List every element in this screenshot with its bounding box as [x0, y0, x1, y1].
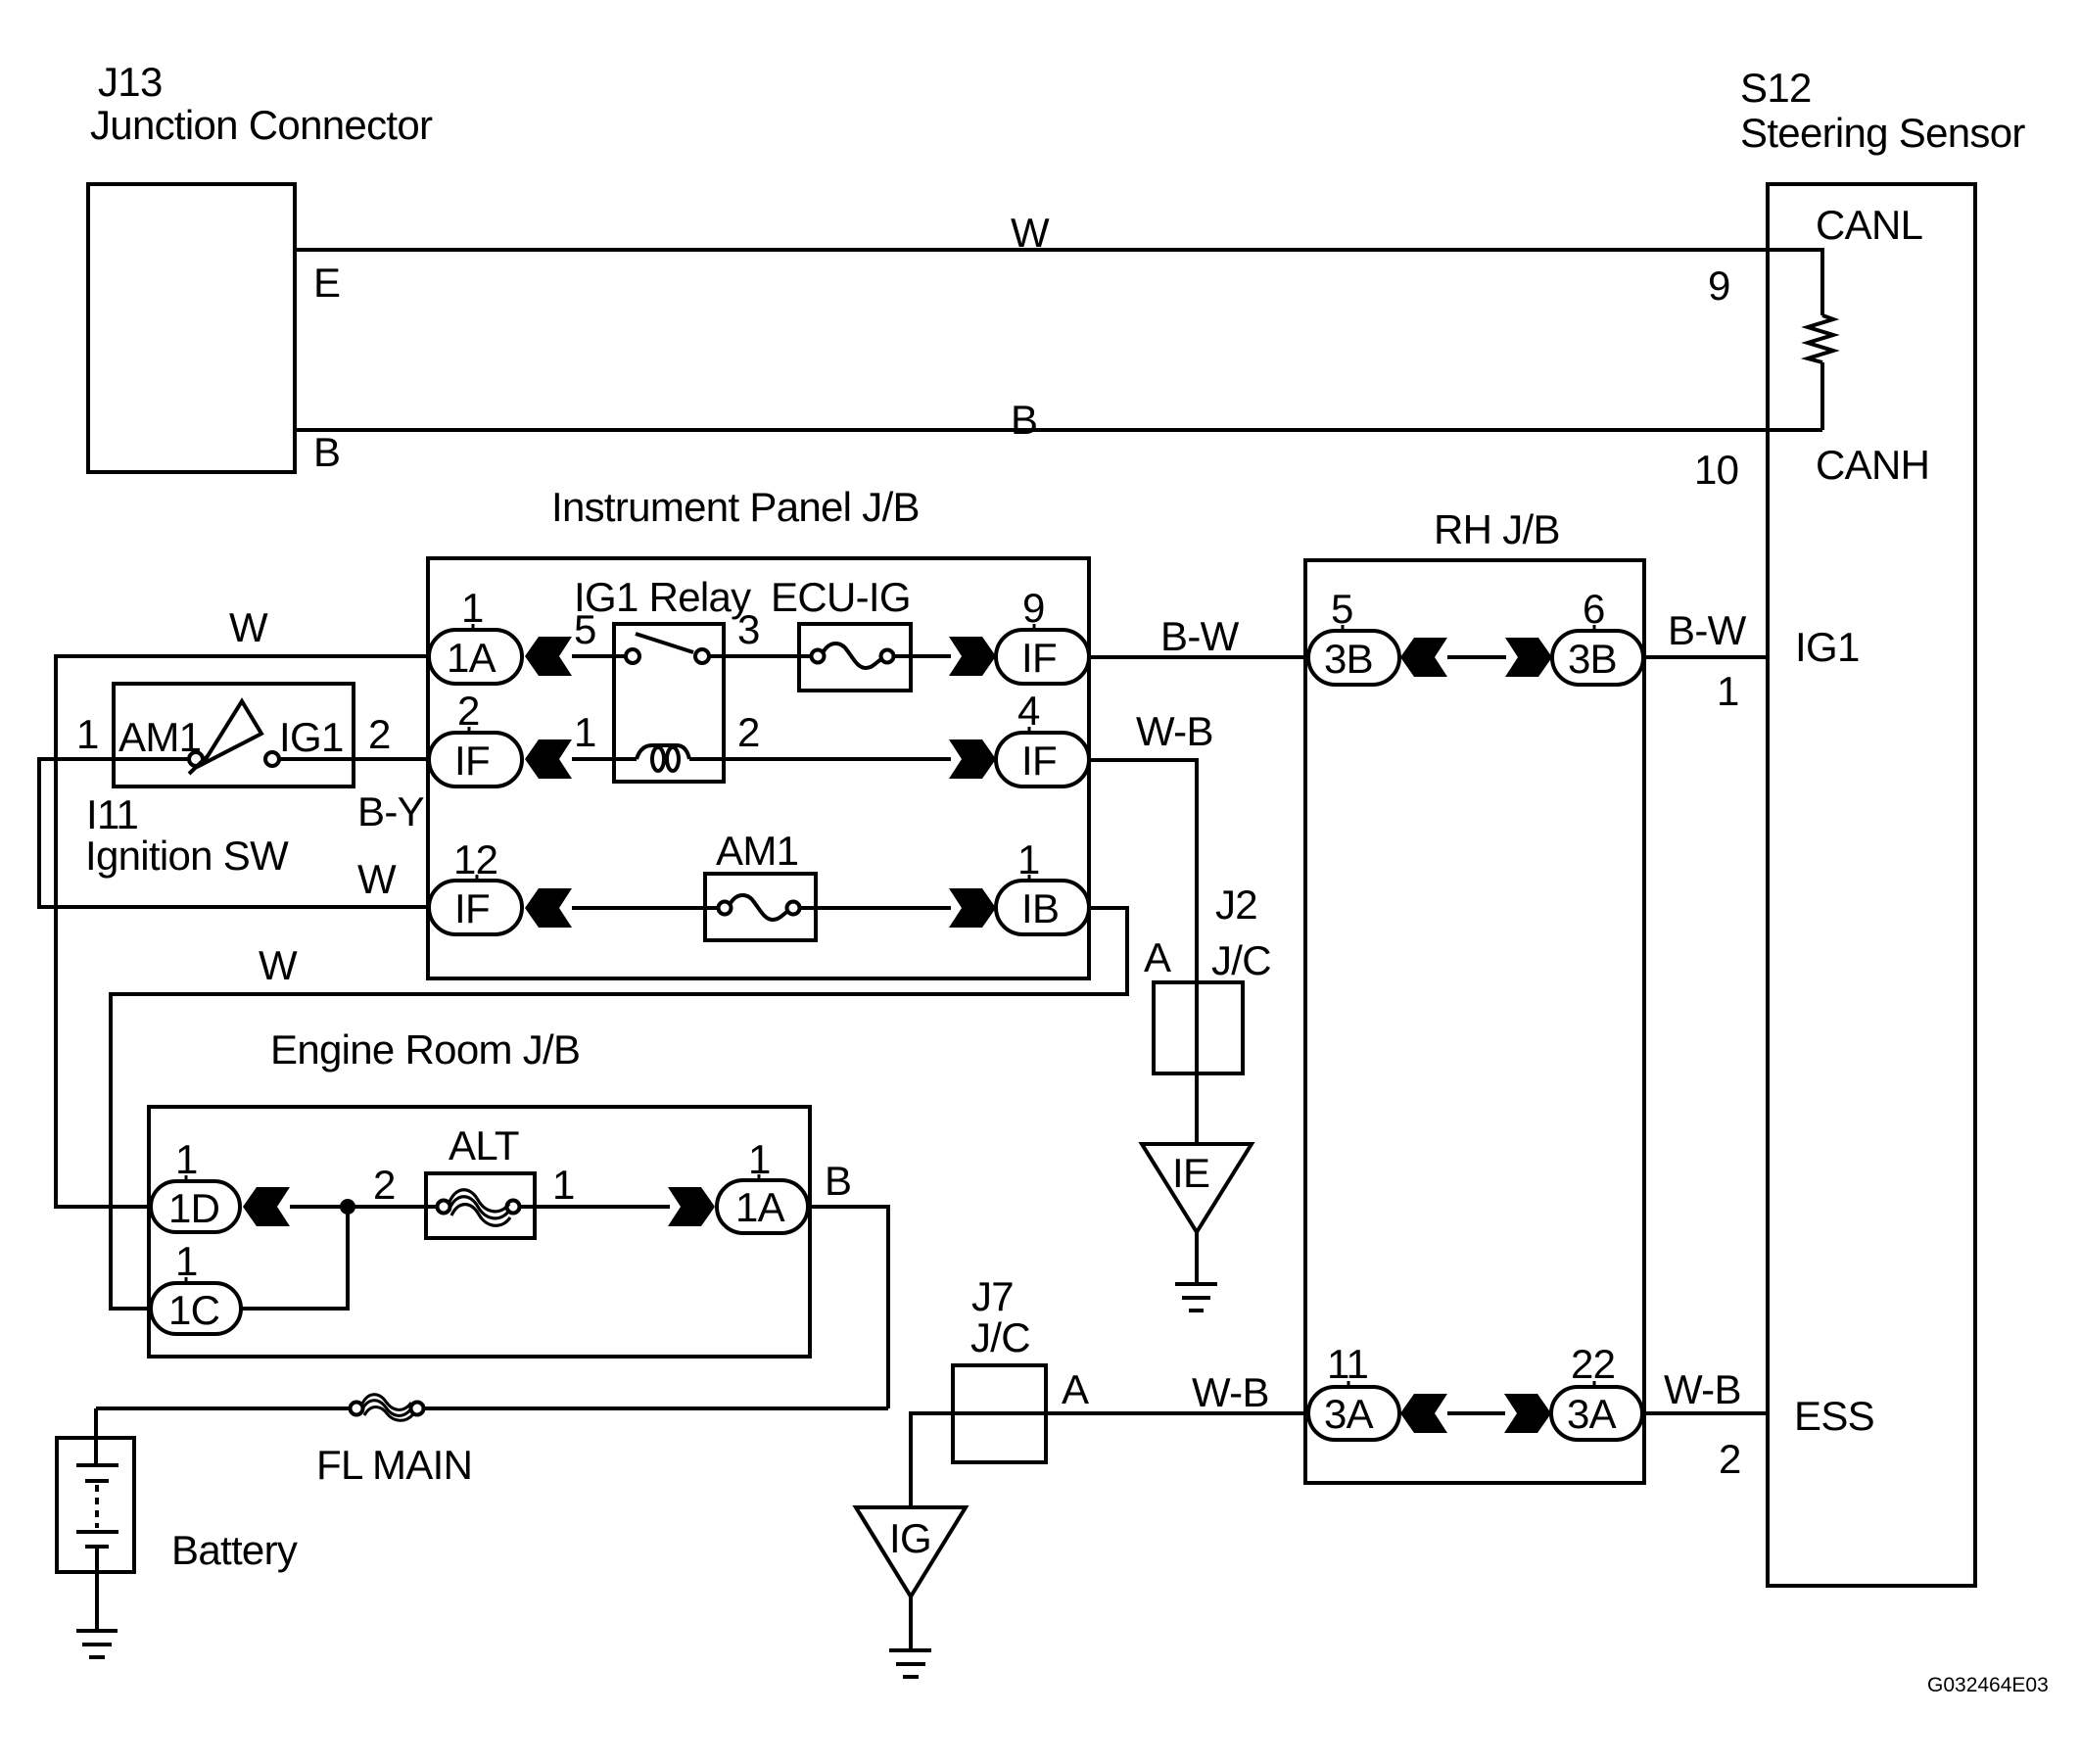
svg-text:5: 5 [574, 606, 596, 652]
arrow left row3 (after IF12) [525, 888, 572, 928]
wire from resistor to CANH [1820, 362, 1824, 430]
ground triangle IG [856, 1507, 966, 1597]
svg-text:B-W: B-W [1160, 613, 1240, 659]
svg-text:FL MAIN: FL MAIN [316, 1442, 472, 1488]
svg-text:W-B: W-B [1664, 1366, 1741, 1412]
S12 steering sensor box [1768, 184, 1975, 1586]
relay switch blade [636, 634, 693, 652]
svg-text:IB: IB [1021, 885, 1059, 931]
wire from IG triangle up and right through J7 to 3A11 [911, 1413, 1308, 1507]
junction connector J7 box [953, 1365, 1046, 1462]
svg-text:J/C: J/C [970, 1314, 1030, 1360]
svg-text:1: 1 [552, 1162, 575, 1208]
wire row2: arrow to coil, coil to arrow [572, 757, 637, 761]
svg-text:W: W [259, 942, 298, 988]
svg-text:3B: 3B [1324, 636, 1373, 682]
pin tick above 3B5 [1342, 625, 1345, 631]
resistor in S12 [1808, 315, 1833, 362]
ground symbol below battery [76, 1629, 118, 1633]
svg-text:3: 3 [737, 606, 760, 652]
wire B from engine 1A right, down to FL MAIN wire [808, 1207, 888, 1408]
svg-text:J2: J2 [1215, 882, 1257, 928]
svg-text:A: A [1144, 934, 1171, 980]
wire FL MAIN from battery to x907 [96, 1406, 350, 1410]
svg-text:IG1 Relay: IG1 Relay [574, 574, 751, 620]
svg-text:B-W: B-W [1668, 607, 1747, 653]
pin tick above IF12 [476, 875, 479, 881]
svg-text:4: 4 [1017, 688, 1040, 734]
svg-text:A: A [1062, 1366, 1089, 1412]
wire W from J13 pin E to S12 pin 9 [295, 250, 1822, 315]
ignition switch I11 box [114, 684, 354, 787]
svg-text:B: B [825, 1158, 851, 1204]
svg-text:RH J/B: RH J/B [1434, 506, 1560, 552]
svg-text:2: 2 [368, 711, 391, 757]
svg-text:1: 1 [175, 1136, 198, 1182]
svg-text:12: 12 [453, 836, 497, 882]
svg-text:1: 1 [1717, 668, 1739, 714]
ALT box [426, 1173, 535, 1238]
arrow left RH row2 (after 3A11) [1400, 1394, 1447, 1433]
pin tick above 1D [185, 1175, 188, 1181]
svg-text:W-B: W-B [1136, 708, 1213, 754]
svg-text:AM1: AM1 [716, 828, 798, 874]
alternator ALT symbol [438, 1201, 450, 1214]
wire ALT to arrow to 1A [519, 1205, 670, 1209]
svg-text:9: 9 [1708, 262, 1730, 309]
connector oval 1A (Engine Room J/B) [717, 1180, 808, 1233]
svg-text:ESS: ESS [1794, 1393, 1874, 1439]
fusible link FL MAIN symbol [351, 1403, 363, 1415]
svg-text:1: 1 [1017, 836, 1040, 882]
svg-text:IG1: IG1 [1795, 624, 1860, 670]
arrow right row2 (before IF4) [949, 739, 996, 779]
J13 junction connector box [88, 184, 295, 472]
pin tick above 3A11 [1347, 1381, 1350, 1387]
svg-text:1C: 1C [168, 1287, 219, 1333]
svg-text:9: 9 [1022, 585, 1045, 631]
svg-text:J13: J13 [98, 59, 163, 105]
svg-text:IG1: IG1 [279, 714, 344, 760]
connector oval 1D (Engine Room J/B) [151, 1181, 240, 1232]
wire from ignition AM1 contact left and down to row3 [39, 759, 429, 907]
svg-text:G032464E03: G032464E03 [1927, 1674, 2049, 1696]
connector oval 1A (Instrument Panel J/B pin 1) [429, 630, 522, 684]
wire 1D arrow to ALT [290, 1205, 438, 1209]
svg-text:B-Y: B-Y [357, 788, 425, 834]
wire row1: relay area segments [572, 654, 627, 658]
connector oval 3B pin 6 [1552, 631, 1643, 685]
svg-text:2: 2 [1719, 1436, 1741, 1482]
svg-text:B: B [1011, 397, 1037, 443]
ground symbol below IG [889, 1648, 931, 1652]
svg-text:1: 1 [461, 585, 484, 631]
wire row1 left: 1A to vertical x57 down to 1D [56, 656, 429, 1207]
connector oval IF pin 2 [429, 733, 522, 787]
svg-text:W-B: W-B [1192, 1369, 1269, 1415]
arrow right RH row1 (before 3B6) [1505, 638, 1552, 677]
svg-text:1: 1 [175, 1238, 198, 1284]
connector oval IF pin 9 [996, 630, 1089, 684]
svg-text:1: 1 [76, 711, 99, 757]
wire W-B from IF4 down through J2 to IE triangle [1089, 760, 1197, 1144]
svg-text:22: 22 [1571, 1341, 1615, 1387]
connector oval IF pin 4 [996, 733, 1089, 787]
fuse ECU-IG box [799, 624, 911, 691]
fuse AM1 symbol [719, 902, 732, 915]
connector oval 3A pin 11 [1308, 1387, 1399, 1440]
fuse AM1 box [705, 874, 816, 940]
pin tick above 1C [185, 1277, 188, 1283]
svg-text:1D: 1D [168, 1185, 219, 1231]
battery cell plates [76, 1463, 118, 1467]
svg-text:S12: S12 [1740, 65, 1812, 111]
svg-text:I11: I11 [86, 791, 138, 837]
svg-text:11: 11 [1327, 1341, 1368, 1387]
wire B-W from 3B6 to S12 IG1 [1644, 655, 1768, 659]
svg-text:3A: 3A [1567, 1391, 1617, 1437]
ground symbol below IE [1175, 1282, 1217, 1286]
svg-text:3A: 3A [1324, 1391, 1374, 1437]
relay switch contact circles [626, 649, 639, 663]
pin tick above 3B6 [1593, 625, 1596, 631]
svg-text:1: 1 [574, 709, 596, 755]
svg-text:E: E [313, 260, 340, 306]
svg-text:5: 5 [1331, 586, 1353, 632]
arrow left row2 (after IF2) [525, 739, 572, 779]
wire from IB right, down, left to x113, down to 1C [111, 908, 1127, 1309]
battery box [57, 1438, 134, 1572]
ignition switch blade triangle [203, 701, 261, 764]
wire IE triangle vertex to ground [1195, 1232, 1199, 1284]
svg-text:3B: 3B [1568, 636, 1617, 682]
arrow left row1 (after 1A) [525, 637, 572, 676]
wire IG triangle vertex to ground [909, 1597, 913, 1650]
svg-text:Ignition SW: Ignition SW [85, 833, 289, 879]
pin tick above IF4 [1028, 727, 1031, 733]
connector oval 3B pin 5 [1308, 631, 1399, 685]
wire row3 segments around AM1 fuse [572, 906, 719, 910]
svg-text:B: B [313, 429, 340, 475]
connector oval IB pin 1 [996, 881, 1089, 934]
svg-text:Instrument Panel J/B: Instrument Panel J/B [551, 484, 920, 530]
svg-text:J/C: J/C [1211, 937, 1271, 983]
arrow right row3 (before IB) [949, 888, 996, 928]
connector oval 1C (Engine Room J/B) [151, 1283, 241, 1334]
svg-text:ECU-IG: ECU-IG [771, 574, 911, 620]
svg-text:Engine Room J/B: Engine Room J/B [270, 1026, 580, 1073]
ground triangle IE [1142, 1144, 1252, 1232]
svg-text:1: 1 [748, 1136, 771, 1182]
svg-text:Junction Connector: Junction Connector [90, 102, 433, 148]
pin tick above IB [1028, 875, 1031, 881]
wire battery positive post [94, 1408, 98, 1465]
svg-text:10: 10 [1694, 447, 1738, 493]
relay coil [637, 745, 689, 759]
svg-text:2: 2 [373, 1162, 396, 1208]
svg-text:2: 2 [737, 709, 760, 755]
wire W-B from 3A22 to S12 ESS [1642, 1411, 1768, 1415]
svg-text:IE: IE [1172, 1150, 1209, 1196]
pin tick above IF9 [1033, 624, 1036, 630]
ignition switch contact circles [189, 752, 203, 766]
arrow right engine room (before 1A) [668, 1187, 715, 1226]
svg-text:IF: IF [454, 885, 490, 931]
junction dot node [340, 1199, 355, 1215]
wire row2: ignition IG1 contact to IF2 [278, 757, 429, 761]
arrow right row1 (before IF9) [949, 637, 996, 676]
svg-text:6: 6 [1583, 586, 1605, 632]
svg-text:CANL: CANL [1816, 202, 1922, 248]
wire between 3A arrows [1447, 1411, 1505, 1415]
fuse ECU-IG symbol [812, 650, 825, 663]
junction connector J2 box [1154, 982, 1243, 1073]
pin tick above IF2 [468, 727, 471, 733]
svg-text:2: 2 [457, 688, 480, 734]
svg-text:Battery: Battery [171, 1527, 298, 1573]
arrow left engine room (after 1D) [243, 1187, 290, 1226]
Instrument Panel J/B box [428, 558, 1089, 978]
svg-text:Steering Sensor: Steering Sensor [1740, 110, 2025, 156]
pin tick above 3A22 [1593, 1381, 1596, 1387]
svg-text:IF: IF [1021, 738, 1057, 784]
Engine Room J/B box [149, 1107, 810, 1357]
svg-text:IF: IF [454, 738, 490, 784]
svg-text:AM1: AM1 [118, 714, 201, 760]
pin tick above 1A [472, 624, 475, 630]
svg-text:W: W [1011, 210, 1050, 256]
arrow right RH row2 (before 3A22) [1504, 1394, 1551, 1433]
wire between 3B arrows [1447, 655, 1506, 659]
IG1 relay box [614, 624, 724, 782]
wire from junction dot down to 1C [241, 1207, 348, 1309]
svg-text:J7: J7 [971, 1273, 1014, 1319]
arrow left RH row1 (after 3B5) [1400, 638, 1447, 677]
svg-text:1A: 1A [735, 1184, 785, 1230]
RH J/B box [1305, 560, 1644, 1483]
connector oval IF pin 12 [429, 881, 522, 934]
svg-text:CANH: CANH [1816, 442, 1929, 488]
svg-text:1A: 1A [447, 635, 496, 681]
pin tick above engine 1A [758, 1174, 761, 1180]
svg-text:ALT: ALT [449, 1122, 519, 1168]
wire B from J13 pin B to S12 pin 10 [295, 428, 1822, 432]
svg-text:W: W [357, 856, 397, 902]
wire B-W from IF9 to 3B5 [1089, 655, 1308, 659]
connector oval 3A pin 22 [1551, 1387, 1642, 1440]
svg-text:IF: IF [1021, 635, 1057, 681]
svg-text:W: W [229, 604, 268, 650]
svg-text:IG: IG [889, 1515, 931, 1561]
